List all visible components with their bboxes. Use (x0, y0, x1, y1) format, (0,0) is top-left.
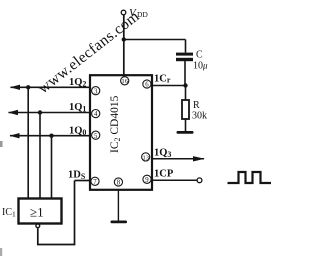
pin 4 (92, 110, 100, 119)
node VDD junction (122, 37, 126, 41)
pin 3 (92, 87, 100, 96)
svg-text:R: R (193, 100, 200, 111)
svg-text:1CP: 1CP (154, 169, 174, 180)
wire IC1 output to 1DS (38, 181, 75, 245)
arrow 1Q2 (10, 85, 20, 90)
pin 8 (114, 178, 122, 187)
decorative watermark (no element label) (35, 8, 143, 97)
wire pin8 to ground (117, 191, 119, 222)
svg-text:1DS: 1DS (68, 170, 86, 182)
svg-text:≥1: ≥1 (30, 205, 44, 220)
gate IC1 NOR (19, 199, 62, 228)
svg-text:DD: DD (137, 10, 148, 19)
wire node to resistor (185, 86, 187, 101)
ground below resistor (177, 131, 194, 134)
wire capacitor top lead (185, 40, 187, 53)
svg-text:1Cr: 1Cr (154, 74, 171, 85)
wire 1Q1 to gate (39, 113, 41, 199)
arrow 1Q3 (193, 156, 205, 161)
wire VDD vertical (123, 15, 125, 76)
svg-text:10μ: 10μ (193, 61, 208, 72)
pin 6 (143, 80, 151, 89)
wire 1CP (152, 179, 197, 181)
resistor R (182, 100, 189, 119)
wire 1Q0 (10, 135, 90, 137)
svg-text:8: 8 (117, 180, 121, 187)
pin 13 (142, 153, 150, 162)
IC U2 CD4015 body (90, 75, 152, 190)
svg-text:3: 3 (94, 88, 98, 95)
svg-text:1Q2: 1Q2 (69, 77, 86, 89)
svg-text:1Q1: 1Q1 (69, 102, 86, 114)
svg-text:7: 7 (93, 179, 97, 186)
pin 16 (121, 77, 129, 85)
wire resistor to ground (185, 119, 187, 132)
pin 9 (143, 175, 151, 184)
pin 5 (92, 131, 100, 140)
wire 1Q2 to gate (27, 87, 29, 198)
wire 1Q0 to gate (51, 136, 53, 198)
terminal 1CP (197, 178, 202, 183)
capacitor C (176, 53, 193, 62)
svg-text:IC2 CD4015: IC2 CD4015 (109, 95, 122, 153)
svg-text:9: 9 (145, 177, 149, 184)
svg-text:IC1: IC1 (2, 207, 16, 219)
svg-text:30k: 30k (192, 111, 207, 122)
wire 1Cr pin6 to node (152, 85, 186, 87)
svg-text:5: 5 (94, 133, 98, 140)
arrow 1Q0 (10, 133, 20, 138)
svg-text:C: C (196, 50, 203, 61)
wire 1Q2 (11, 86, 91, 88)
ground below pin 8 (111, 221, 128, 224)
svg-text:13: 13 (143, 154, 149, 161)
power VDD terminal (121, 7, 148, 19)
svg-text:1Q0: 1Q0 (69, 126, 86, 138)
svg-text:6: 6 (145, 82, 149, 89)
pin 7 (91, 177, 99, 186)
node 1Q1 junction (38, 110, 42, 114)
node 1Q0 junction (49, 134, 53, 138)
svg-text:4: 4 (94, 111, 98, 118)
wire 1Q3 output (152, 158, 204, 160)
clock waveform (228, 172, 272, 183)
arrow 1Q1 (8, 110, 18, 115)
svg-text:1Q3: 1Q3 (154, 148, 171, 160)
svg-text:16: 16 (121, 78, 128, 85)
wire 1Q1 (9, 112, 91, 114)
wire capacitor bottom lead (184, 61, 186, 86)
node 1Q2 junction (26, 85, 30, 89)
wire 1DS into pin 7 (75, 180, 91, 182)
wire VDD to capacitor (124, 39, 186, 41)
node R top junction (183, 83, 187, 87)
